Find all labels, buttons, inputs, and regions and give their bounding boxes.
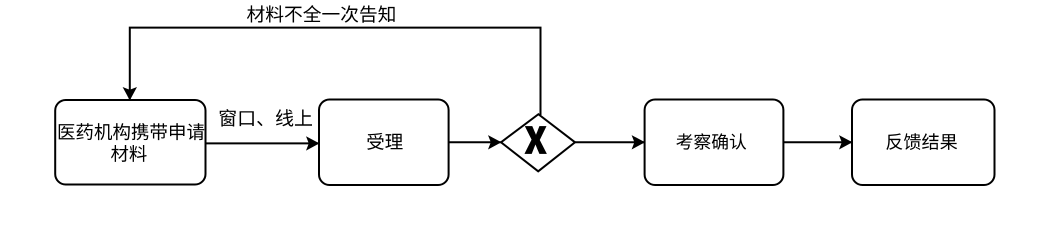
label T3: 医药机构携带申请 [59, 123, 205, 140]
label T7: 反馈结果 [886, 133, 957, 150]
label T5: 受理 [367, 133, 402, 150]
wire: arrow box3 to box4 [783, 141, 852, 143]
wire: arrow box1 to box2 [206, 142, 320, 144]
label T8: X [525, 126, 546, 153]
label T2: 窗口、线上 [220, 109, 312, 127]
label T4: 材料 [111, 145, 147, 162]
wire: arrow box2 to diamond [449, 141, 501, 143]
label T6: 考察确认 [676, 133, 746, 149]
label T1: 材料不全一次告知 [247, 5, 395, 23]
wire: arrow diamond to box3 [575, 141, 645, 143]
process box: 受理 [319, 100, 449, 186]
process box: 医药机构携带申请材料 [55, 100, 205, 185]
process box: 考察确认 [645, 100, 784, 186]
wire: feedback loop diamond top to box1 [130, 28, 541, 115]
decision diamond gateway [501, 114, 575, 171]
process box: 反馈结果 [852, 100, 995, 186]
